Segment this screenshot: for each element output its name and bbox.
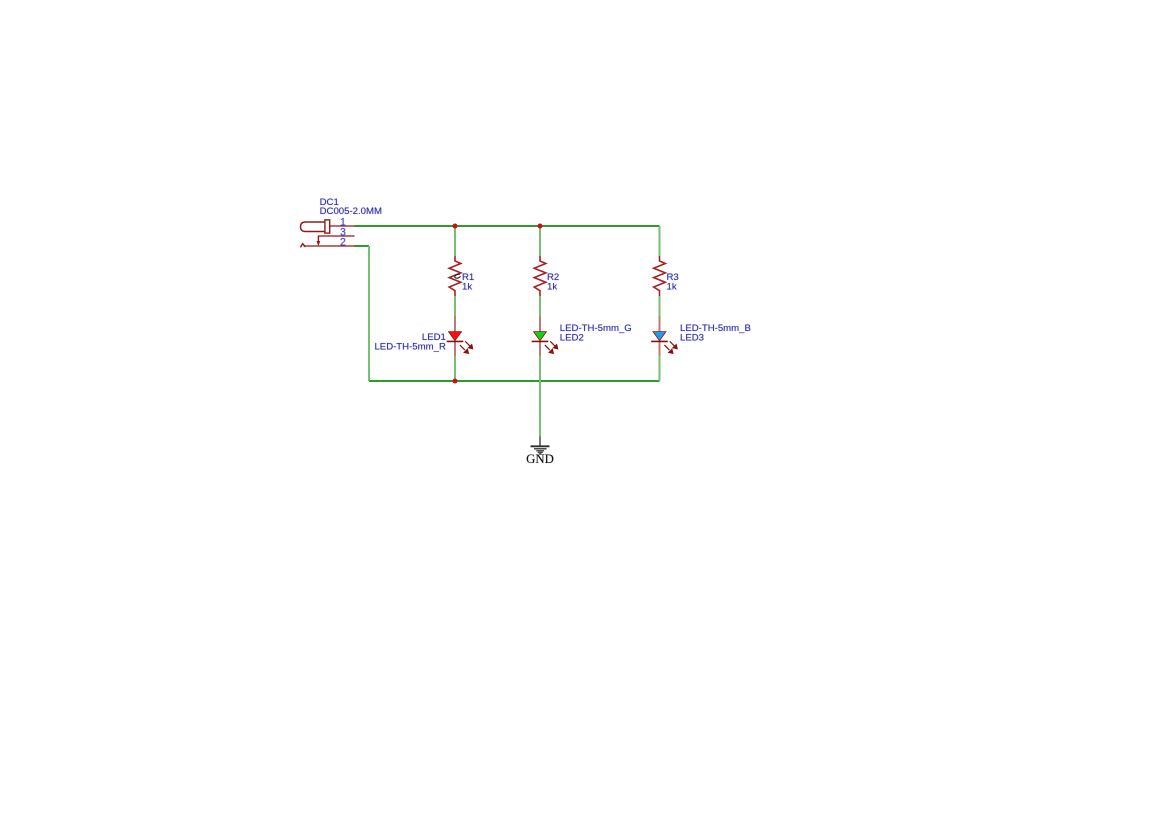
svg-text:LED-TH-5mm_R: LED-TH-5mm_R [374, 342, 445, 353]
svg-text:LED2: LED2 [560, 333, 584, 344]
svg-text:GND: GND [526, 452, 554, 466]
svg-text:2: 2 [340, 237, 346, 249]
svg-text:1k: 1k [462, 282, 472, 293]
svg-text:1k: 1k [547, 282, 557, 293]
svg-text:DC005-2.0MM: DC005-2.0MM [320, 206, 382, 217]
svg-text:1k: 1k [667, 282, 677, 293]
svg-text:LED3: LED3 [680, 332, 704, 343]
